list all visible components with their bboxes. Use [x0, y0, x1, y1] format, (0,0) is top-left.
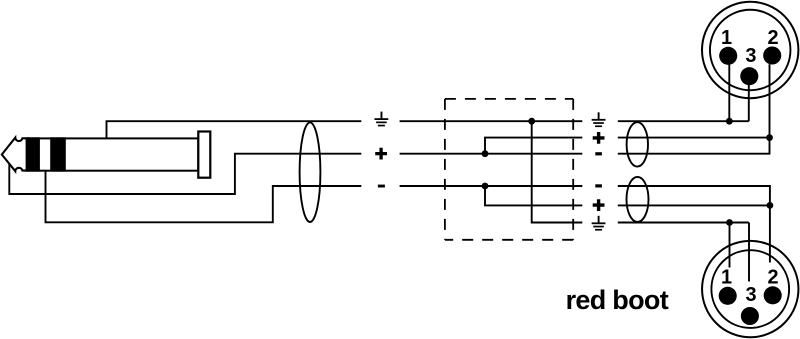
junction dot plus/minus bottom: [767, 202, 774, 209]
XLR X1 inner circle: [710, 10, 791, 91]
cable ellipse right bottom: [627, 177, 649, 222]
jack plug J1 shaft/body outline: [27, 138, 199, 170]
jack ring band 1: [27, 137, 40, 171]
minus line into box: [400, 185, 583, 187]
wire plus to XLR1 pin 2: [618, 137, 770, 139]
wire plus to XLR2 pin 2: [618, 204, 770, 206]
svg-text:3: 3: [745, 45, 756, 67]
junction dot ground/pin1 bottom: [726, 219, 733, 226]
jack collar: [198, 132, 210, 178]
cable ellipse left: [300, 122, 321, 222]
XLR X2 pin 1: [719, 287, 737, 305]
ground line into box: [400, 120, 583, 122]
svg-text:3: 3: [745, 284, 756, 306]
junction dot on ground line: [528, 118, 535, 125]
junction dot on minus line: [482, 183, 489, 190]
XLR X2 inner circle: [711, 250, 789, 328]
svg-text:1: 1: [721, 27, 732, 49]
XLR X1 pin 1: [719, 47, 737, 65]
node: minus drop to xlr2 plus: [485, 186, 582, 205]
junction dot ground/pin1 top: [726, 118, 733, 125]
junction dot plus/minus top: [766, 134, 773, 141]
plus symbol right bottom: [593, 199, 605, 211]
svg-text:red boot: red boot: [566, 285, 669, 315]
cable ellipse right top: [627, 122, 648, 166]
node: plus rise to xlr1 plus: [485, 138, 582, 154]
XLR X1 pin 2: [763, 46, 781, 64]
plus symbol left: [375, 148, 387, 160]
svg-text:2: 2: [767, 27, 778, 49]
wire tip to plus line: [9, 154, 361, 194]
jack plug J1 tip: [2, 138, 28, 172]
wire ground to XLR1 pins 1 and 3: [618, 65, 749, 122]
XLR X2 pin 2: [764, 286, 782, 304]
wire minus down to XLR2 pin 2: [618, 186, 770, 263]
XLR X1 pin 3: [740, 67, 758, 85]
minus symbol right bottom: [595, 184, 602, 187]
wire sleeve to ground line: [107, 121, 362, 138]
ground symbol right bottom: [592, 216, 606, 231]
XLR connector X2 outer circle: [702, 241, 798, 337]
node: ground drop to xlr2 ground: [532, 121, 583, 222]
minus symbol right top: [595, 152, 602, 155]
ground symbol left: [375, 112, 389, 127]
ground symbol right top: [592, 112, 606, 127]
junction dot on plus line: [482, 150, 489, 157]
jack ring band 2: [50, 137, 66, 171]
wire ring to minus line: [46, 171, 362, 223]
minus symbol left: [378, 185, 385, 188]
wire minus up to XLR1 pin 2: [618, 64, 770, 154]
XLR X2 pin 3: [741, 307, 759, 325]
svg-text:2: 2: [767, 266, 778, 288]
plus line into box: [400, 153, 583, 155]
XLR connector X1 outer circle: [702, 2, 798, 98]
plus symbol right top: [593, 132, 605, 144]
svg-text:1: 1: [721, 266, 732, 288]
dashed adapter box: [445, 99, 573, 240]
wire ground to XLR2 pins 1 and 3: [618, 223, 749, 282]
